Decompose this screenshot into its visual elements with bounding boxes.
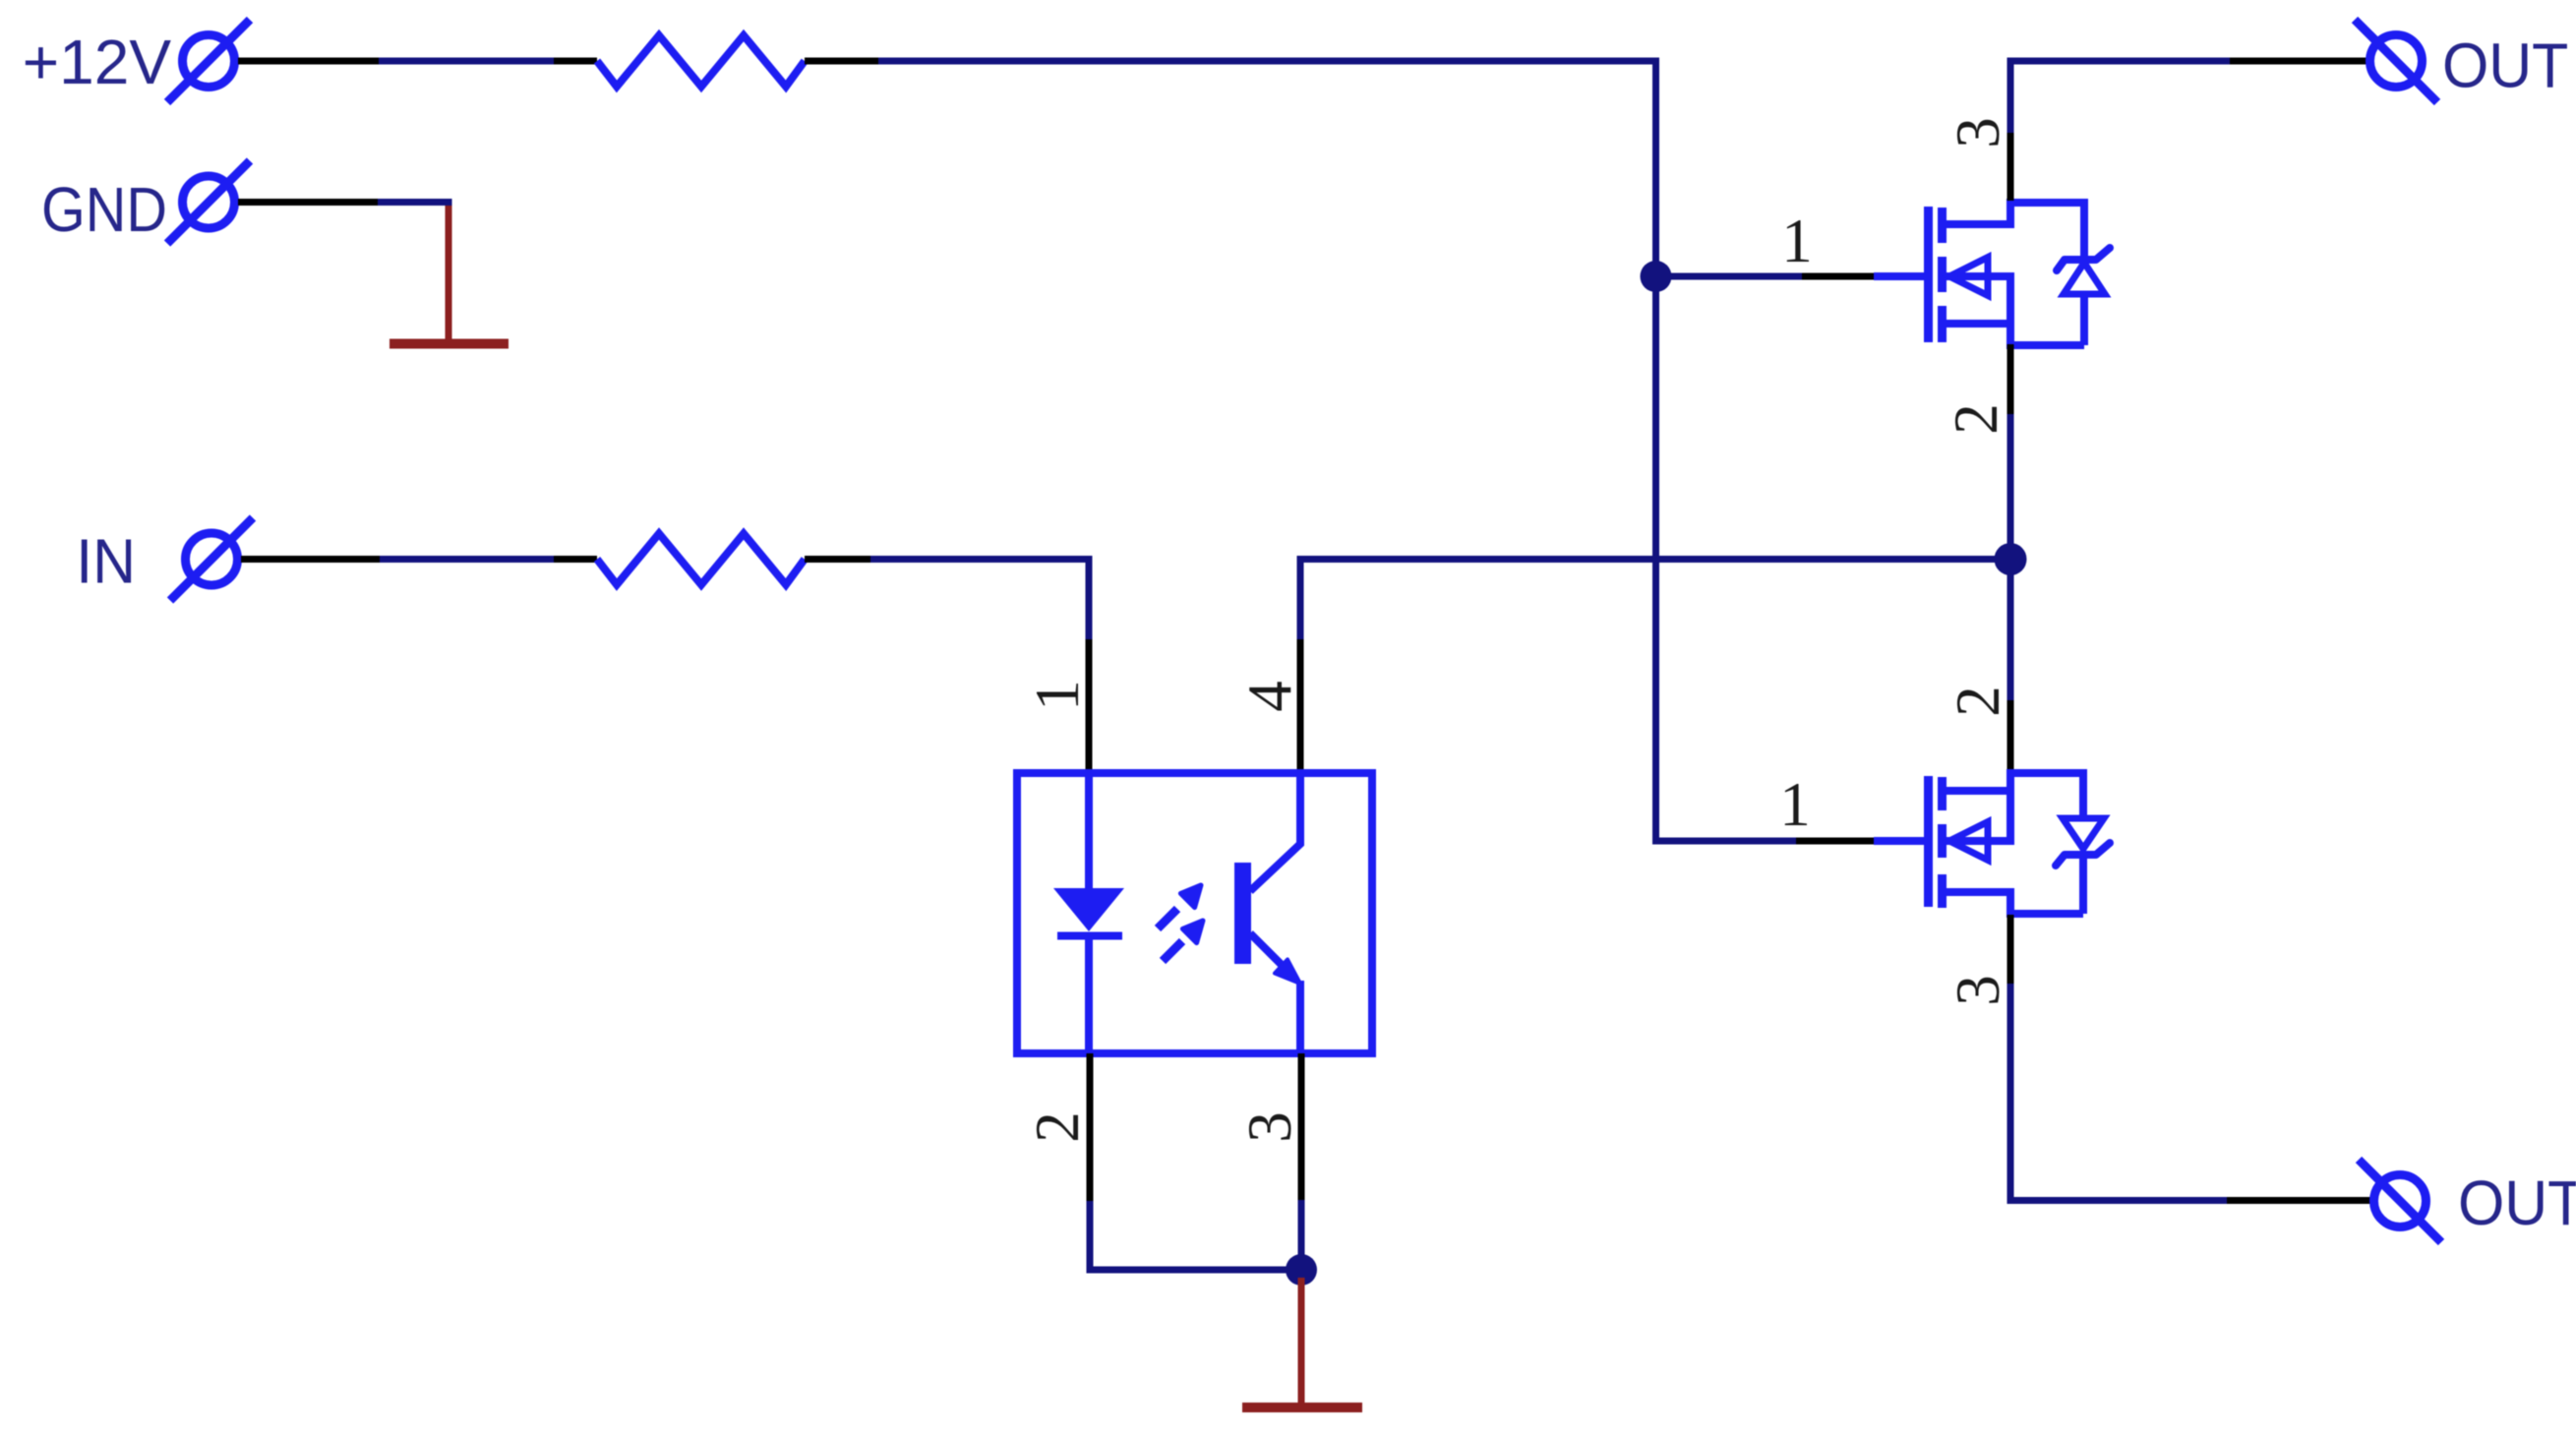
Q1 zener cathode bar [2057,248,2110,270]
Q2 body arrow [1949,822,1988,861]
junction dot mid node [1995,543,2027,575]
resistor R1 left lead [554,58,597,65]
Q2 gate pin lead (black) [1796,838,1874,845]
svg-text:2: 2 [1942,403,2010,435]
wire GND drop (dark red) [446,206,452,339]
Q2 gate bar [1924,776,1933,907]
Q2 body diode anode lead [2079,769,2087,820]
Q1 source vertical [2007,272,2014,347]
resistor R2 right lead [805,556,870,563]
phototransistor collector [1250,773,1300,891]
LED anode lead inside U1 [1085,773,1093,890]
transistor Q1 (top MOSFET) [1874,199,2110,347]
Q2 source pin lead (black) [2007,915,2014,986]
Q1 source jog [1946,320,2010,328]
optocoupler U1 body [1017,773,1372,1053]
wire GND pin lead (black) [238,199,378,206]
Q1 body diode anode lead [2080,292,2088,345]
wire IN net segment (navy) [380,556,554,563]
Q2 gate lead [1874,837,1925,845]
svg-text:4: 4 [1235,681,1304,712]
connector IN [170,518,253,601]
wire Q1 drain to OUT (navy) [2010,61,2230,133]
Q1 gate pin lead (black) [1802,273,1874,280]
wire Q2 to OUT bottom (navy) [2010,984,2227,1201]
wire opto pin2 to junction (navy) [1090,1201,1301,1270]
emitter lead inside U1 [1296,981,1304,1053]
wire +12V rail to gates (navy) [878,61,1796,841]
Q1 body diode top link [2007,199,2084,207]
transistor Q2 (bottom MOSFET) [1874,769,2110,918]
Q1 gate bar [1924,207,1933,342]
junction dot gate node [1641,261,1672,292]
wire opto pin3 to junction (navy) [1298,1200,1305,1270]
Q2 diode triangle [2063,818,2104,849]
resistor R1 right lead [805,58,878,65]
Q2 zener cathode bar [2056,843,2110,866]
LED cathode bar [1057,932,1122,940]
wire OUT bottom (black) [2227,1197,2373,1204]
wire gate branch upper (navy) [1656,273,1803,280]
LED triangle [1053,888,1124,931]
Q1 diode triangle [2064,263,2105,294]
Q1 body connection [1946,272,2010,280]
connector GND [167,161,250,244]
junction dot emitter node [1286,1254,1317,1286]
Q2 drain jog [1946,888,2010,896]
Q1 channel dashes [1938,208,1947,243]
Q2 body diode bottom link [2007,910,2083,918]
wire opto pin4 to gate node (navy) [1300,560,2010,640]
emitter arrowhead [1275,960,1300,985]
opto pin 2 lead (black) [1087,1053,1094,1201]
resistor R1 [597,35,805,87]
opto pin 4 lead (black) [1297,639,1304,775]
wire +12V pin lead (black) [238,58,379,65]
opto pin 3 lead (black) [1298,1053,1305,1200]
wire OUT top (black) [2230,58,2366,65]
LED cathode lead inside U1 [1085,935,1093,1053]
wire IN to opto pin1 (navy) [870,560,1089,640]
Q2 body diode top link [2007,769,2083,777]
svg-text:2: 2 [1023,1111,1092,1143]
phototransistor base plate [1234,863,1251,964]
wire to ground (dark red) [1298,1278,1305,1404]
svg-text:OUT: OUT [2442,30,2568,101]
phototransistor emitter [1250,933,1284,967]
svg-text:1: 1 [1023,680,1092,711]
light arrow B [1163,921,1203,961]
wire IN pin lead (black) [241,556,380,563]
Q1 body diode bottom link [2007,341,2084,349]
Q2 source vertical [2007,769,2014,845]
svg-text:IN: IN [76,526,136,597]
Q2 drain pin lead (black) [2007,700,2014,771]
Q2 body diode cathode lead [2079,855,2087,914]
svg-text:GND: GND [41,174,167,244]
ground symbol upper [389,339,509,349]
Q2 channel dashes [1938,777,1947,810]
connector OUT top [2355,20,2437,102]
Q2 body connection [1946,837,2010,845]
svg-text:3: 3 [1944,975,2012,1006]
Q1 drain pin lead (black) [2007,131,2014,201]
svg-text:+12V: +12V [23,27,172,97]
svg-text:2: 2 [1944,686,2012,717]
wire GND net segment (navy) [378,199,452,206]
Q1 drain jog [1946,220,2010,228]
resistor R2 [597,534,805,585]
Q1 source pin lead (black) [2007,344,2014,414]
svg-text:1: 1 [1779,770,1811,839]
light arrow A [1158,885,1201,928]
Q1 body diode cathode lead [2080,199,2088,262]
wire +12V net segment (navy) [379,58,554,65]
svg-text:1: 1 [1781,207,1813,275]
Q2 drain vertical [2007,888,2014,918]
opto pin 1 lead (black) [1086,639,1093,775]
connector +12V [167,20,250,102]
svg-text:3: 3 [1235,1111,1304,1143]
resistor R2 left lead [554,556,597,563]
svg-text:3: 3 [1944,117,2012,149]
svg-text:OUT: OUT [2458,1168,2576,1239]
ground symbol lower [1242,1403,1362,1412]
wire source-drain node (navy) [2007,414,2014,700]
connector OUT bottom [2359,1160,2441,1242]
Q1 drain vertical [2007,199,2014,228]
Q2 source jog [1946,787,2010,795]
Q1 gate lead [1874,272,1925,280]
Q1 body arrow [1949,258,1988,296]
